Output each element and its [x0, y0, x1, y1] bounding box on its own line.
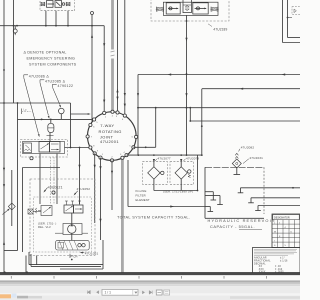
gray trunk line lower: [121, 158, 124, 273]
gray trunk line mid: [111, 59, 114, 112]
wire return y188: [238, 187, 300, 193]
wire V1 drop dashed a: [49, 157, 51, 204]
pump enclosure: [63, 224, 82, 235]
wire filters outlet: [154, 155, 199, 191]
label 47U2082: [239, 146, 255, 152]
wire vertical x155: [155, 108, 157, 148]
enclosure lowerleft outer edge: [23, 168, 61, 253]
svg-text:47U2031: 47U2031: [249, 156, 263, 160]
valve V2 spools: [64, 205, 83, 213]
wire joint to reservoir feed: [128, 160, 205, 208]
viewer panel divider: [0, 280, 300, 286]
wire drop x100: [99, 158, 101, 240]
viewer progress segment dark: [17, 296, 28, 299]
port circle 40U0121: [52, 191, 55, 194]
note SER REL VLV: [38, 222, 56, 230]
wire V3 stub a: [45, 11, 47, 26]
wire y119 horizontal: [18, 118, 92, 120]
wire LP dashed stub: [22, 109, 31, 115]
reservoir left strainer b: [205, 196, 223, 205]
valve V3 internals: [41, 1, 70, 8]
svg-text:ELEMENT: ELEMENT: [136, 198, 150, 202]
viewer progress bar orange: [0, 294, 11, 298]
wire vertical x125: [124, 0, 126, 116]
svg-text:SYSTEM COMPONENTS: SYSTEM COMPONENTS: [29, 62, 77, 66]
svg-text:± 1/16: ± 1/16: [280, 260, 288, 263]
reservoir 55gal outline: [205, 167, 264, 218]
svg-text:IN-LINE: IN-LINE: [136, 189, 147, 193]
label 47U1051: [80, 251, 99, 255]
wire left vertical D: [25, 256, 27, 274]
wire drop x94: [94, 153, 96, 223]
wire return y205: [255, 206, 300, 211]
accumulator 47U2085 capsule: [48, 119, 54, 132]
valve V2 left port box: [28, 209, 41, 214]
label 4790122: [53, 84, 74, 88]
rotating joint 47U2001 circle: [88, 112, 137, 161]
label 47U1052: [74, 187, 91, 195]
label 40U0121: [43, 185, 62, 192]
wire vertical x92: [91, 26, 93, 122]
viewer toolbar prev button: [96, 290, 99, 294]
viewer toolbar first-page button: [87, 290, 90, 294]
valve block V2 relief: [35, 206, 52, 216]
wire y74 horizontal: [138, 73, 300, 75]
inner dashed enclosure: [34, 197, 92, 252]
port CH: [70, 254, 78, 261]
arrow y89: [240, 88, 244, 90]
svg-text:1 / 1: 1 / 1: [105, 291, 112, 295]
svg-text:47U1052: 47U1052: [77, 187, 91, 191]
wire capsule to valve stem: [47, 133, 54, 142]
joint port circles: [86, 110, 138, 162]
note CAPACITY 55GAL: [210, 224, 262, 230]
svg-text:47U2085 Δ: 47U2085 Δ: [45, 79, 66, 83]
valve V1 body: [23, 142, 65, 154]
viewer page combobox: [102, 289, 138, 295]
svg-text:HYDRAULIC RESERVOIR: HYDRAULIC RESERVOIR: [208, 218, 276, 223]
valve 47U2189 center cartridge: [183, 0, 191, 13]
label 47U2077: [155, 156, 171, 161]
wire vertical x190: [189, 108, 191, 121]
wire V1 drop solid: [39, 154, 41, 205]
wire vertical x202: [201, 89, 203, 156]
svg-text:47U2077: 47U2077: [158, 156, 171, 160]
leader 47U2085: [40, 83, 49, 119]
gauge 4790122 circle: [59, 108, 65, 119]
wire left vertical B: [13, 0, 15, 103]
leader 4790122: [53, 87, 62, 108]
port stub with gauge point: [91, 12, 94, 26]
gray trunk break marks: [111, 51, 115, 56]
valve 47U2189 right spool: [193, 3, 208, 14]
svg-text:47U1051: 47U1051: [85, 251, 99, 255]
wire left vertical C: [4, 103, 18, 251]
viewer bottom-right band: [230, 296, 300, 299]
wire bottom horizontal: [0, 271, 300, 274]
svg-text:7-WAY: 7-WAY: [100, 123, 114, 128]
pump circle: [68, 213, 76, 240]
svg-text:EMERGENCY STEERING: EMERGENCY STEERING: [27, 57, 76, 61]
check valve with leader: [3, 170, 16, 226]
filler filter element: [232, 159, 241, 168]
wire y121 horizontal: [189, 120, 300, 122]
wire left vertical A: [3, 0, 5, 273]
wire stub x36: [36, 256, 38, 265]
viewer toolbar fit-width icon: [156, 290, 162, 295]
title block tolerance box: [253, 248, 301, 274]
svg-text:47U2082: 47U2082: [241, 146, 255, 150]
wire vertical x104: [103, 26, 105, 113]
enclosure top-right outer: [283, 0, 301, 43]
viewer toolbar last-page button: [149, 291, 152, 295]
wire vertical x104 low: [102, 240, 104, 269]
breather check 47U2082: [235, 153, 238, 158]
reservoir left strainer a: [205, 192, 216, 200]
label 47U2085: [40, 79, 66, 83]
node H1 junctions: [13, 25, 93, 27]
wire return y198: [248, 198, 300, 203]
svg-text:ROTATING: ROTATING: [99, 129, 122, 134]
svg-text:FILTER: FILTER: [136, 194, 146, 198]
steering assembly dashed enclosure: [30, 179, 95, 256]
port circle under V1: [30, 157, 33, 160]
valve 47U2189 left port sym: [156, 7, 163, 11]
filter 47U2078 element: [175, 162, 191, 191]
svg-text:DECIMAL: DECIMAL: [254, 262, 266, 265]
wire V3 stub c: [67, 11, 69, 26]
valve V1 spools: [39, 142, 60, 153]
wire y103 horizontal: [0, 102, 71, 104]
reservoir inlet hook: [205, 207, 213, 212]
valve V2 top stubs: [65, 201, 81, 205]
filter 47U2077 element: [148, 162, 164, 191]
wire V1 drop solid b: [56, 154, 58, 205]
wire vertical x117: [116, 0, 118, 113]
svg-text:REL. VLV.: REL. VLV.: [38, 225, 52, 229]
svg-text:4790122: 4790122: [58, 84, 74, 88]
label 47U2189: [208, 24, 227, 32]
wire vertical x138: [137, 75, 139, 157]
wire filler stub: [234, 168, 241, 175]
wire V1 drop dashed b: [53, 157, 55, 204]
filter 47U2077 enclosure: [143, 162, 168, 185]
svg-text:47U2086 Δ: 47U2086 Δ: [29, 74, 50, 78]
valve V1 relief: [23, 143, 31, 153]
pump side stubs: [55, 232, 88, 234]
viewer toolbar fit-page icon: [164, 290, 170, 295]
viewer focus square: [12, 293, 17, 297]
label 47U2086: [24, 74, 50, 78]
svg-text:Δ DENOTE OPTIONAL: Δ DENOTE OPTIONAL: [24, 51, 67, 55]
viewer panel highlight row: [0, 293, 300, 295]
label 47U2078: [184, 156, 200, 161]
node top-right junction: [287, 17, 292, 19]
gray trunk line upper: [111, 0, 114, 50]
steering unit 47U1051: [56, 240, 90, 250]
valve 47U2189 right port sym: [211, 7, 218, 11]
valve block 47U2189 dashed enclosure: [151, 0, 229, 21]
valve top-right dashed boxlet: [292, 7, 301, 15]
svg-text:TOTAL SYSTEM CAPACITY 75GAL.: TOTAL SYSTEM CAPACITY 75GAL.: [117, 215, 190, 220]
enclosure box bottoms: [29, 252, 103, 269]
node y103 junctions: [3, 102, 18, 104]
wire y103 step: [70, 103, 91, 148]
svg-text:DESIGNATOR: DESIGNATOR: [274, 217, 290, 220]
wire y89 horizontal: [202, 89, 300, 94]
svg-text:CAPACITY - 55GAL.: CAPACITY - 55GAL.: [210, 224, 255, 229]
wire H1 horizontal: [0, 25, 104, 27]
viewer toolbar next button: [142, 291, 145, 295]
wire filters line y155: [127, 154, 202, 156]
svg-text:CH: CH: [73, 255, 77, 259]
wire valve drop x186: [185, 15, 187, 156]
valve block V1 dashed enclosure: [20, 139, 67, 157]
wire valve1 to joint: [65, 147, 90, 149]
valve 47U2189 body: [163, 2, 218, 15]
svg-text:47U2189: 47U2189: [213, 28, 227, 32]
sheet border zone ticks: [11, 276, 266, 279]
wire y108 horizontal: [137, 107, 300, 109]
wire drop x79: [78, 148, 80, 205]
enclosure top-right inner: [288, 0, 301, 38]
svg-text:(SER. 1751- ): (SER. 1751- ): [38, 222, 56, 226]
pressure tap symbol: [13, 26, 17, 36]
label 47U2031: [243, 156, 263, 164]
viewer progress segment mid: [28, 296, 42, 298]
wire filters feed arrows: [153, 159, 183, 163]
arrow left vertical A marks: [3, 168, 5, 245]
svg-text:47U2001: 47U2001: [100, 139, 119, 144]
wire drop x112: [111, 160, 113, 210]
svg-text:40U0121: 40U0121: [48, 185, 63, 189]
viewer panel background: [0, 286, 300, 300]
leader 47U2086: [24, 78, 40, 137]
valve 47U2189 left spool: [166, 3, 180, 14]
svg-text:(SER. 1751-1899 UP): (SER. 1751-1899 UP): [163, 190, 193, 194]
wire V3 stub b: [55, 11, 57, 26]
svg-text:Lp: Lp: [24, 108, 28, 111]
note IN-LINE FILTER ELEMENT: [136, 189, 150, 202]
filter 47U2078 enclosure: [170, 162, 194, 185]
wire joint right y147: [133, 146, 155, 148]
title block table: [272, 214, 300, 248]
valve block V3 dashed enclosure: [40, 0, 75, 11]
